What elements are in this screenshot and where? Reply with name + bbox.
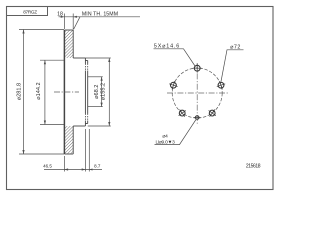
dia281.8 dimension line — [23, 30, 25, 155]
arrow dia68.2 bottom — [101, 103, 103, 107]
hat shoulder top — [73, 57, 85, 59]
bolt hole upper right — [217, 81, 225, 89]
hatch bottom friction ring — [64, 126, 73, 154]
svg-text:18: 18 — [57, 11, 63, 17]
hat shoulder bottom — [73, 125, 85, 127]
min th underline — [80, 16, 140, 18]
dia68.2 extension bottom — [88, 106, 103, 108]
dim18 dimension line — [59, 16, 81, 18]
leader 5Xdia14.6 — [154, 49, 196, 66]
bolt hole top — [193, 64, 202, 73]
arrow 46.5 right — [82, 168, 86, 170]
PCD circle — [172, 68, 222, 118]
dia68.2 dimension line — [101, 77, 103, 107]
arrow dia144.2 top — [44, 60, 46, 64]
hat face outer wall — [84, 58, 86, 126]
dim18 extension right — [72, 14, 74, 30]
arrow dia144.2 bottom — [44, 121, 46, 125]
hat face inner wall — [87, 61, 89, 124]
dia281.8 extension top — [19, 29, 64, 31]
dia281.8 extension bottom — [19, 153, 64, 155]
bottom dims dimension line — [44, 169, 102, 171]
dim18 extension left — [63, 14, 65, 30]
dia144.2 extension top — [40, 59, 64, 61]
svg-text:⌀281.8: ⌀281.8 — [17, 83, 23, 100]
bottom dim extension hat inner — [88, 129, 90, 172]
arrowheads — [22, 16, 110, 171]
bolt hole upper left — [169, 81, 177, 89]
dia144.2 dimension line — [44, 60, 46, 124]
arrow dia68.2 top — [101, 77, 103, 81]
centerline horizontal — [167, 92, 228, 94]
dia144.2 extension bottom — [40, 124, 64, 126]
arrow 8.7 right — [89, 169, 92, 171]
drawing frame border — [7, 7, 274, 190]
svg-text:8.7: 8.7 — [94, 163, 101, 168]
leader dia4 — [155, 120, 197, 145]
dia155.2 extension top — [85, 57, 110, 59]
arrow dia155.2 bottom — [108, 122, 110, 126]
disc outer edge bottom — [64, 153, 73, 155]
min th leader — [74, 17, 81, 30]
bolt hole lower left — [179, 110, 186, 117]
title box — [7, 7, 48, 16]
svg-text:⌀155.2: ⌀155.2 — [101, 83, 107, 100]
svg-text:87RGZ: 87RGZ — [23, 10, 37, 15]
dia155.2 extension bottom — [88, 125, 111, 127]
dia155.2 dimension line — [108, 58, 110, 126]
hat face outer wall hidden holes — [84, 64, 86, 121]
bolt hole lower right — [209, 110, 216, 117]
bottom dim extension left face — [63, 156, 65, 172]
bottom dim extension hat outer — [84, 129, 86, 172]
ring right face top — [72, 30, 74, 58]
arrow dia281.8 top — [22, 30, 24, 34]
hat step bottom — [85, 123, 87, 125]
set screw hole — [194, 116, 200, 120]
svg-text:⌀4: ⌀4 — [162, 134, 168, 140]
arrow 46.5 left — [64, 168, 68, 170]
centerline vertical — [196, 63, 198, 124]
disc outer edge top — [64, 29, 73, 31]
svg-text:⌀68.2: ⌀68.2 — [94, 85, 100, 99]
svg-text:MIN TH. 15MM: MIN TH. 15MM — [82, 11, 118, 17]
svg-text:215618: 215618 — [246, 164, 261, 170]
svg-text:46.5: 46.5 — [43, 164, 52, 169]
leader dia72 — [221, 50, 244, 82]
svg-text:⌀144.2: ⌀144.2 — [36, 82, 42, 99]
hat face inner wall hidden holes — [87, 64, 89, 121]
ring right face bottom — [72, 126, 74, 154]
arrow dia281.8 bottom — [22, 150, 24, 154]
arrow dim18 left — [61, 16, 65, 18]
hat step top — [85, 60, 87, 62]
arrow dia155.2 top — [108, 58, 110, 62]
disc left face — [63, 30, 65, 154]
dia68.2 extension top — [88, 76, 103, 78]
hatch top friction ring — [64, 30, 73, 58]
arrow dim18 right — [73, 16, 77, 18]
centerline left view — [54, 91, 79, 93]
